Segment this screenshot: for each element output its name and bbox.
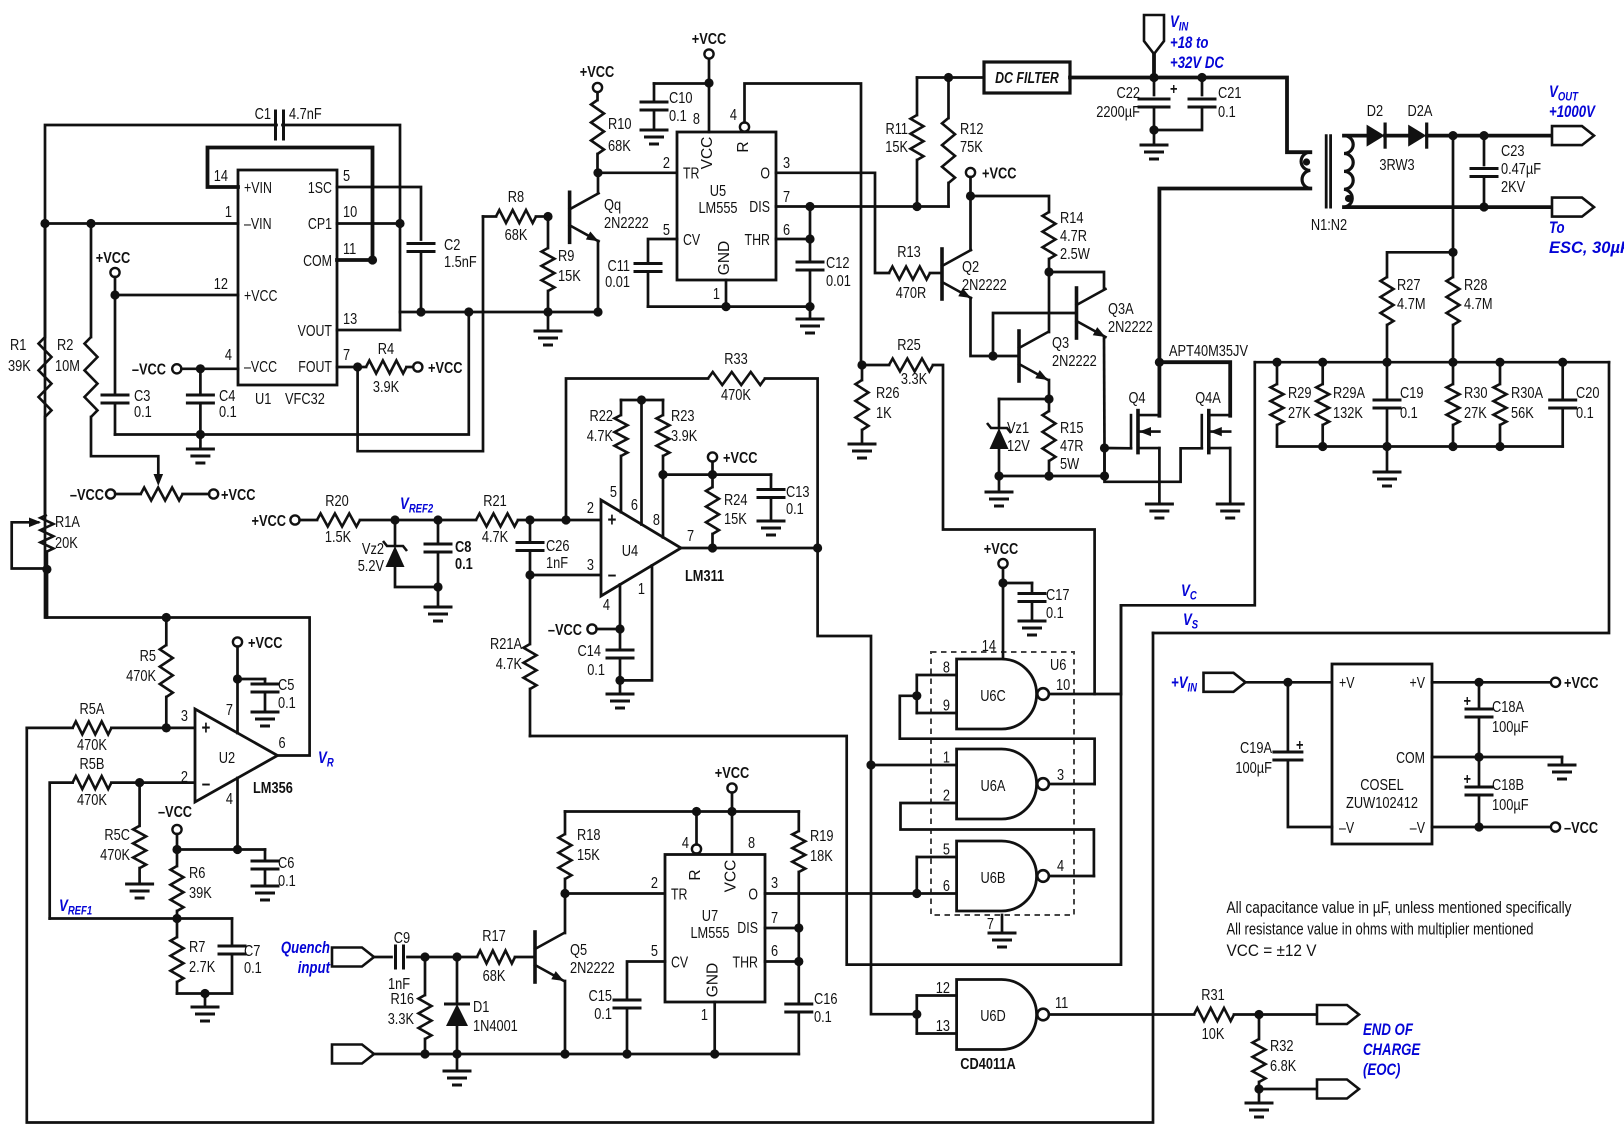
svg-text:R14: R14 xyxy=(1060,210,1084,227)
svg-text:C18B: C18B xyxy=(1492,777,1524,794)
node DIS/C12 xyxy=(805,202,814,211)
svg-text:U7: U7 xyxy=(702,908,718,925)
svg-text:+1000V: +1000V xyxy=(1549,103,1596,121)
zener Vz1 12V xyxy=(998,399,1001,428)
wire R33 loop xyxy=(566,379,708,521)
pin 4 R circle U7 xyxy=(692,844,701,853)
svg-text:–: – xyxy=(202,774,211,795)
capacitor C5 xyxy=(238,678,266,681)
svg-text:C3: C3 xyxy=(134,388,150,405)
svg-text:20K: 20K xyxy=(55,535,78,552)
wire +VCC to pin 12 xyxy=(114,277,117,295)
capacitor C12 xyxy=(809,207,812,263)
svg-text:R13: R13 xyxy=(897,244,921,261)
svg-text:O: O xyxy=(748,887,758,904)
svg-text:0.1: 0.1 xyxy=(219,404,237,421)
svg-text:C16: C16 xyxy=(814,991,838,1008)
svg-text:4: 4 xyxy=(1057,858,1064,875)
resistor R16 xyxy=(424,957,427,995)
node -VIN/R1 xyxy=(40,219,49,228)
svg-text:+V: +V xyxy=(1339,675,1355,692)
svg-text:R4: R4 xyxy=(378,341,394,358)
svg-text:C12: C12 xyxy=(826,255,850,272)
capacitor C17 xyxy=(1003,582,1032,585)
transistor Q3 2N2222 xyxy=(1017,331,1021,381)
resistor R17 xyxy=(477,951,515,964)
svg-text:0.47µF: 0.47µF xyxy=(1501,161,1541,178)
wire +Vin to COSEL xyxy=(1246,681,1333,684)
wire feedback loop U2 xyxy=(47,569,310,755)
svg-text:U2: U2 xyxy=(219,750,235,767)
svg-text:2: 2 xyxy=(587,500,594,517)
node R28 tap xyxy=(1448,131,1457,140)
svg-text:3: 3 xyxy=(783,155,790,172)
svg-text:R30A: R30A xyxy=(1511,385,1543,402)
terminal +VCC (R20) xyxy=(290,515,299,524)
svg-text:12: 12 xyxy=(214,276,228,293)
capacitor C1 xyxy=(274,111,277,139)
node R25/R26 xyxy=(857,360,866,369)
wire Q3 collector xyxy=(1048,272,1051,332)
svg-text:LM555: LM555 xyxy=(690,925,729,942)
svg-text:100µF: 100µF xyxy=(1492,719,1529,736)
wire pin6 xyxy=(640,400,643,525)
svg-text:R1A: R1A xyxy=(55,514,80,531)
svg-text:R24: R24 xyxy=(724,492,748,509)
svg-text:470K: 470K xyxy=(100,847,130,864)
svg-text:0.1: 0.1 xyxy=(134,404,152,421)
svg-text:27K: 27K xyxy=(1464,405,1487,422)
svg-text:1N4001: 1N4001 xyxy=(473,1018,518,1035)
wire U6C output xyxy=(1049,693,1121,696)
node VREF1 xyxy=(172,914,181,923)
svg-text:2.5W: 2.5W xyxy=(1060,246,1091,263)
svg-text:R15: R15 xyxy=(1060,420,1084,437)
svg-text:4: 4 xyxy=(225,347,232,364)
ground Q4 xyxy=(1146,503,1172,506)
op-amp U2 LM356 xyxy=(195,709,278,802)
svg-text:6.8K: 6.8K xyxy=(1270,1058,1297,1075)
wire C9 to R17 xyxy=(425,956,477,959)
svg-text:GND: GND xyxy=(716,241,733,275)
svg-text:2N2222: 2N2222 xyxy=(570,960,615,977)
wire R25 to U6C output xyxy=(933,365,1095,694)
svg-text:CV: CV xyxy=(671,955,689,972)
svg-text:R22: R22 xyxy=(590,408,614,425)
capacitor C19A xyxy=(1287,682,1290,752)
capacitor C26 xyxy=(529,520,532,543)
svg-text:6: 6 xyxy=(783,222,790,239)
wire pin14 xyxy=(1002,568,1005,659)
svg-text:R11: R11 xyxy=(886,121,909,138)
wire VCC pin8 xyxy=(708,59,711,133)
svg-text:75K: 75K xyxy=(960,139,983,156)
svg-text:C21: C21 xyxy=(1218,85,1242,102)
wire DC filter right to V_IN xyxy=(1070,76,1154,80)
svg-text:2: 2 xyxy=(651,875,658,892)
svg-text:R29A: R29A xyxy=(1333,385,1365,402)
svg-text:5W: 5W xyxy=(1060,456,1080,473)
node COM junction xyxy=(368,255,377,264)
svg-text:47R: 47R xyxy=(1060,438,1084,455)
svg-text:R7: R7 xyxy=(189,939,205,956)
svg-text:R12: R12 xyxy=(960,121,984,138)
svg-text:GND: GND xyxy=(705,963,722,997)
svg-text:1SC: 1SC xyxy=(308,180,332,197)
svg-text:56K: 56K xyxy=(1511,405,1534,422)
svg-text:18K: 18K xyxy=(810,848,833,865)
svg-text:LM311: LM311 xyxy=(685,568,724,585)
wire VOUT xyxy=(337,329,400,332)
svg-text:4.7K: 4.7K xyxy=(496,656,523,673)
svg-text:R5C: R5C xyxy=(104,827,130,844)
diode D1 1N4001 xyxy=(456,957,459,1004)
svg-text:4.7M: 4.7M xyxy=(1464,296,1493,313)
wire Q4A source to ground xyxy=(1229,448,1232,503)
wire R15/Vz1 bottom to gate node xyxy=(999,448,1105,476)
svg-text:0.1: 0.1 xyxy=(669,108,687,125)
svg-text:–V: –V xyxy=(1410,820,1426,837)
svg-text:0.1: 0.1 xyxy=(786,501,804,518)
svg-text:END OF: END OF xyxy=(1363,1021,1414,1039)
svg-text:CD4011A: CD4011A xyxy=(960,1056,1016,1073)
wire to Vz1 xyxy=(999,398,1049,401)
svg-text:Vz2: Vz2 xyxy=(362,541,384,558)
node R1A bottom xyxy=(42,565,51,574)
svg-text:ZUW102412: ZUW102412 xyxy=(1346,795,1418,812)
node bus/FOUT-link xyxy=(464,307,473,316)
resistor R4 xyxy=(366,361,407,374)
ground C8 xyxy=(437,587,440,606)
wire +VCC to R14 xyxy=(971,196,1050,212)
svg-text:2: 2 xyxy=(663,155,670,172)
svg-text:2: 2 xyxy=(181,769,188,786)
svg-text:+: + xyxy=(1296,737,1304,754)
svg-text:R25: R25 xyxy=(897,337,921,354)
wire C1 top loop / R1 chain xyxy=(45,125,277,618)
svg-text:Quench: Quench xyxy=(281,939,330,957)
svg-text:U4: U4 xyxy=(622,543,638,560)
wire COM xyxy=(1432,756,1562,759)
resistor R5B xyxy=(50,783,73,919)
IC U1 VFC32 xyxy=(238,170,337,385)
svg-text:5: 5 xyxy=(610,484,617,501)
svg-text:U6: U6 xyxy=(1050,657,1066,674)
node C4/gnd rail xyxy=(196,430,205,439)
svg-text:R32: R32 xyxy=(1270,1038,1294,1055)
svg-text:15K: 15K xyxy=(558,268,581,285)
resistor R18 xyxy=(564,812,567,835)
svg-text:To: To xyxy=(1549,219,1565,237)
wire Vs line xyxy=(1153,362,1609,633)
wire -VCC pin4 xyxy=(597,628,620,631)
wire Qq emitter xyxy=(597,241,600,312)
diode D2 xyxy=(1367,125,1385,147)
svg-text:R17: R17 xyxy=(482,928,506,945)
node R27 tie xyxy=(1448,248,1457,257)
NAND U6C xyxy=(957,659,1037,729)
capacitor C13 xyxy=(770,475,773,490)
transistor Q3A 2N2222 xyxy=(1075,288,1079,338)
node R14/Q3 collector xyxy=(1044,267,1053,276)
svg-text:COM: COM xyxy=(1396,750,1425,767)
wire Vc to R21A node xyxy=(530,605,1121,964)
svg-text:10: 10 xyxy=(1056,677,1070,694)
svg-text:C15: C15 xyxy=(589,988,613,1005)
svg-text:R30: R30 xyxy=(1464,385,1488,402)
resistor R14 xyxy=(1043,212,1056,259)
svg-text:APT40M35JV: APT40M35JV xyxy=(1169,343,1248,360)
wire sense bus top xyxy=(1255,361,1609,364)
svg-text:Qq: Qq xyxy=(604,197,621,214)
node gate xyxy=(1100,443,1109,452)
wire gate jog to Q4A xyxy=(1105,448,1202,482)
svg-text:0.1: 0.1 xyxy=(587,662,605,679)
svg-text:O: O xyxy=(760,166,770,183)
wire TR U7 xyxy=(565,892,665,895)
wire secondary top xyxy=(1344,134,1367,138)
wire -VCC to pin 4 xyxy=(181,367,238,370)
svg-text:–VCC: –VCC xyxy=(1564,820,1598,837)
zener Vz2 5.2V xyxy=(394,520,397,546)
wire Vs down to bottom rail xyxy=(27,633,1153,1123)
wire -VIN row xyxy=(45,222,238,225)
wire R11/R12 to DC filter xyxy=(917,76,984,79)
svg-text:4: 4 xyxy=(682,835,689,852)
transistor Q5 2N2222 xyxy=(533,932,537,982)
svg-text:C13: C13 xyxy=(786,484,810,501)
resistor R10 xyxy=(596,92,599,100)
svg-text:C14: C14 xyxy=(578,643,602,660)
NAND U6A xyxy=(957,749,1037,819)
resistor R1 xyxy=(44,224,47,338)
svg-text:R23: R23 xyxy=(671,408,695,425)
NAND U6D xyxy=(957,980,1037,1050)
wire Q3 emitter node xyxy=(1048,380,1051,399)
flag EOC return xyxy=(1317,1080,1359,1099)
svg-text:39K: 39K xyxy=(189,885,212,902)
svg-text:C18A: C18A xyxy=(1492,699,1524,716)
capacitor C2 xyxy=(408,242,434,245)
wire ground rail y434.5 xyxy=(115,312,469,435)
svg-text:Q4A: Q4A xyxy=(1195,390,1221,407)
terminal -VCC (U1 pin4) xyxy=(172,364,181,373)
flag quench return xyxy=(332,1045,374,1064)
svg-text:R29: R29 xyxy=(1288,385,1312,402)
terminal +VCC (R24) xyxy=(708,452,717,461)
svg-text:CHARGE: CHARGE xyxy=(1363,1041,1421,1059)
wire to Q4A drain xyxy=(1159,362,1230,416)
svg-text:1.5nF: 1.5nF xyxy=(444,254,477,271)
svg-text:14: 14 xyxy=(214,168,228,185)
capacitor C8 xyxy=(437,520,440,544)
svg-text:C9: C9 xyxy=(394,930,410,947)
svg-text:100µF: 100µF xyxy=(1492,797,1529,814)
wire bottom rail U7 xyxy=(374,1053,799,1056)
svg-text:470K: 470K xyxy=(126,668,156,685)
wire U5 output to R13 xyxy=(776,173,889,273)
svg-text:3.3K: 3.3K xyxy=(901,371,928,388)
svg-text:C22: C22 xyxy=(1117,85,1141,102)
wire THR xyxy=(776,238,810,241)
svg-text:+18 to: +18 to xyxy=(1170,34,1209,52)
wire U6D output to R31 xyxy=(1049,1013,1194,1016)
ground below R9 xyxy=(547,312,550,330)
svg-text:4.7K: 4.7K xyxy=(482,529,509,546)
wire -V out xyxy=(1432,826,1551,829)
capacitor C4 xyxy=(199,369,202,395)
node -VIN/R2 xyxy=(86,219,95,228)
terminal +VCC (U5) xyxy=(704,49,713,58)
wire Q3A emitter down xyxy=(1103,337,1106,448)
svg-text:7: 7 xyxy=(687,528,694,545)
svg-text:+: + xyxy=(1170,81,1178,98)
wire DIS U7 xyxy=(765,927,799,930)
wire U6B output xyxy=(1049,875,1094,878)
svg-text:7: 7 xyxy=(343,347,350,364)
svg-text:5: 5 xyxy=(651,943,658,960)
wire R22/R23 tie xyxy=(621,399,663,402)
svg-text:68K: 68K xyxy=(483,968,506,985)
terminal +VCC (Q2) xyxy=(966,168,975,177)
resistor R21 xyxy=(476,514,518,527)
capacitor C18A xyxy=(1478,682,1481,709)
svg-text:68K: 68K xyxy=(505,227,528,244)
capacitor C11 xyxy=(648,239,677,264)
node Q3A base tap xyxy=(988,351,997,360)
svg-text:CV: CV xyxy=(683,232,701,249)
resistor R28 xyxy=(1447,277,1460,325)
wire Q5 emitter xyxy=(564,981,567,1054)
svg-text:+VCC: +VCC xyxy=(580,64,615,81)
wire U6B input tie xyxy=(917,856,957,859)
flag To ESC xyxy=(1552,198,1594,217)
node Q4 drain branch xyxy=(1155,358,1164,367)
wire DIS xyxy=(776,205,949,208)
svg-text:15K: 15K xyxy=(577,847,600,864)
svg-text:2.7K: 2.7K xyxy=(189,959,216,976)
resistor R27 xyxy=(1381,277,1394,325)
ground COM xyxy=(1561,757,1564,764)
svg-text:input: input xyxy=(298,959,331,977)
svg-text:3: 3 xyxy=(1057,767,1064,784)
MOSFET Q4A xyxy=(1201,415,1204,448)
terminal -VCC (U2) xyxy=(172,825,181,834)
svg-text:1: 1 xyxy=(638,581,645,598)
ground C13 xyxy=(758,520,784,523)
ground below C4 xyxy=(199,435,202,449)
svg-text:100µF: 100µF xyxy=(1235,760,1272,777)
wire VREF2 node xyxy=(395,519,476,522)
svg-text:+VCC: +VCC xyxy=(221,487,256,504)
node R5/plus xyxy=(162,723,171,732)
svg-text:1.5K: 1.5K xyxy=(325,529,352,546)
svg-text:R33: R33 xyxy=(724,351,748,368)
capacitor C15 xyxy=(627,962,665,1001)
wire +V out xyxy=(1432,681,1551,684)
resistor R5C xyxy=(138,783,141,826)
svg-text:15K: 15K xyxy=(724,511,747,528)
svg-text:Q3A: Q3A xyxy=(1108,301,1134,318)
svg-text:0.1: 0.1 xyxy=(244,960,262,977)
wire -VCC node xyxy=(176,834,179,866)
svg-text:2KV: 2KV xyxy=(1501,179,1525,196)
resistor R25 xyxy=(862,364,889,367)
svg-text:2N2222: 2N2222 xyxy=(1108,319,1153,336)
svg-text:15K: 15K xyxy=(885,139,908,156)
wire R27 top xyxy=(1387,252,1453,277)
svg-text:+VCC: +VCC xyxy=(252,513,287,530)
svg-text:VCC: VCC xyxy=(723,860,740,893)
svg-text:2N2222: 2N2222 xyxy=(604,215,649,232)
svg-text:8: 8 xyxy=(748,835,755,852)
svg-text:4.7K: 4.7K xyxy=(587,428,614,445)
svg-text:C10: C10 xyxy=(669,90,693,107)
svg-text:0.1: 0.1 xyxy=(278,873,296,890)
svg-text:39K: 39K xyxy=(8,358,31,375)
ground C14 xyxy=(619,680,622,693)
wire FOUT xyxy=(337,366,358,369)
svg-text:3: 3 xyxy=(587,557,594,574)
svg-text:5: 5 xyxy=(663,222,670,239)
resistor R7 xyxy=(176,919,179,938)
wire R2 to pot wiper xyxy=(91,417,158,476)
terminal +VCC (R10) xyxy=(593,83,602,92)
svg-text:2N2222: 2N2222 xyxy=(962,277,1007,294)
transistor Qq 2N2222 xyxy=(568,192,572,242)
svg-text:R6: R6 xyxy=(189,865,205,882)
svg-text:–VCC: –VCC xyxy=(132,362,166,379)
svg-text:–: – xyxy=(608,565,617,586)
svg-text:–VIN: –VIN xyxy=(244,216,272,233)
svg-text:+VCC: +VCC xyxy=(1564,675,1599,692)
resistor R8 xyxy=(483,215,496,218)
svg-text:D2: D2 xyxy=(1367,103,1383,120)
svg-text:–VCC: –VCC xyxy=(548,622,582,639)
svg-text:7: 7 xyxy=(987,916,994,933)
svg-text:11: 11 xyxy=(343,241,356,258)
svg-text:FOUT: FOUT xyxy=(298,359,332,376)
svg-text:3.9K: 3.9K xyxy=(671,428,698,445)
svg-text:14: 14 xyxy=(982,638,996,655)
svg-text:7: 7 xyxy=(783,189,790,206)
op-amp U4 LM311 xyxy=(601,500,681,596)
svg-text:C19A: C19A xyxy=(1240,740,1272,757)
svg-text:4: 4 xyxy=(226,791,233,808)
svg-text:+VCC: +VCC xyxy=(982,166,1017,183)
capacitor C7 xyxy=(177,917,232,920)
capacitor C23 xyxy=(1483,136,1486,165)
svg-text:0.1: 0.1 xyxy=(278,695,296,712)
svg-text:All capacitance value in µF, u: All capacitance value in µF, unless ment… xyxy=(1227,898,1572,917)
terminal -VCC (COSEL) xyxy=(1551,822,1560,831)
svg-text:470R: 470R xyxy=(896,285,927,302)
wire +VCC rail U4 xyxy=(663,473,771,476)
svg-text:U6B: U6B xyxy=(981,870,1006,887)
svg-text:CP1: CP1 xyxy=(308,216,332,233)
IC COSEL ZUW102412 xyxy=(1332,664,1432,844)
svg-text:0.1: 0.1 xyxy=(1400,405,1418,422)
wire primary bottom to Q4 drain xyxy=(1159,189,1310,416)
svg-text:27K: 27K xyxy=(1288,405,1311,422)
wire THR U7 xyxy=(765,960,799,963)
capacitor C22 2200uF xyxy=(1153,78,1156,96)
svg-text:C20: C20 xyxy=(1576,385,1600,402)
wire TR xyxy=(598,171,677,174)
resistor R32 xyxy=(1258,1015,1261,1040)
ground C22/C21 xyxy=(1153,130,1156,144)
svg-text:4.7nF: 4.7nF xyxy=(289,106,322,123)
